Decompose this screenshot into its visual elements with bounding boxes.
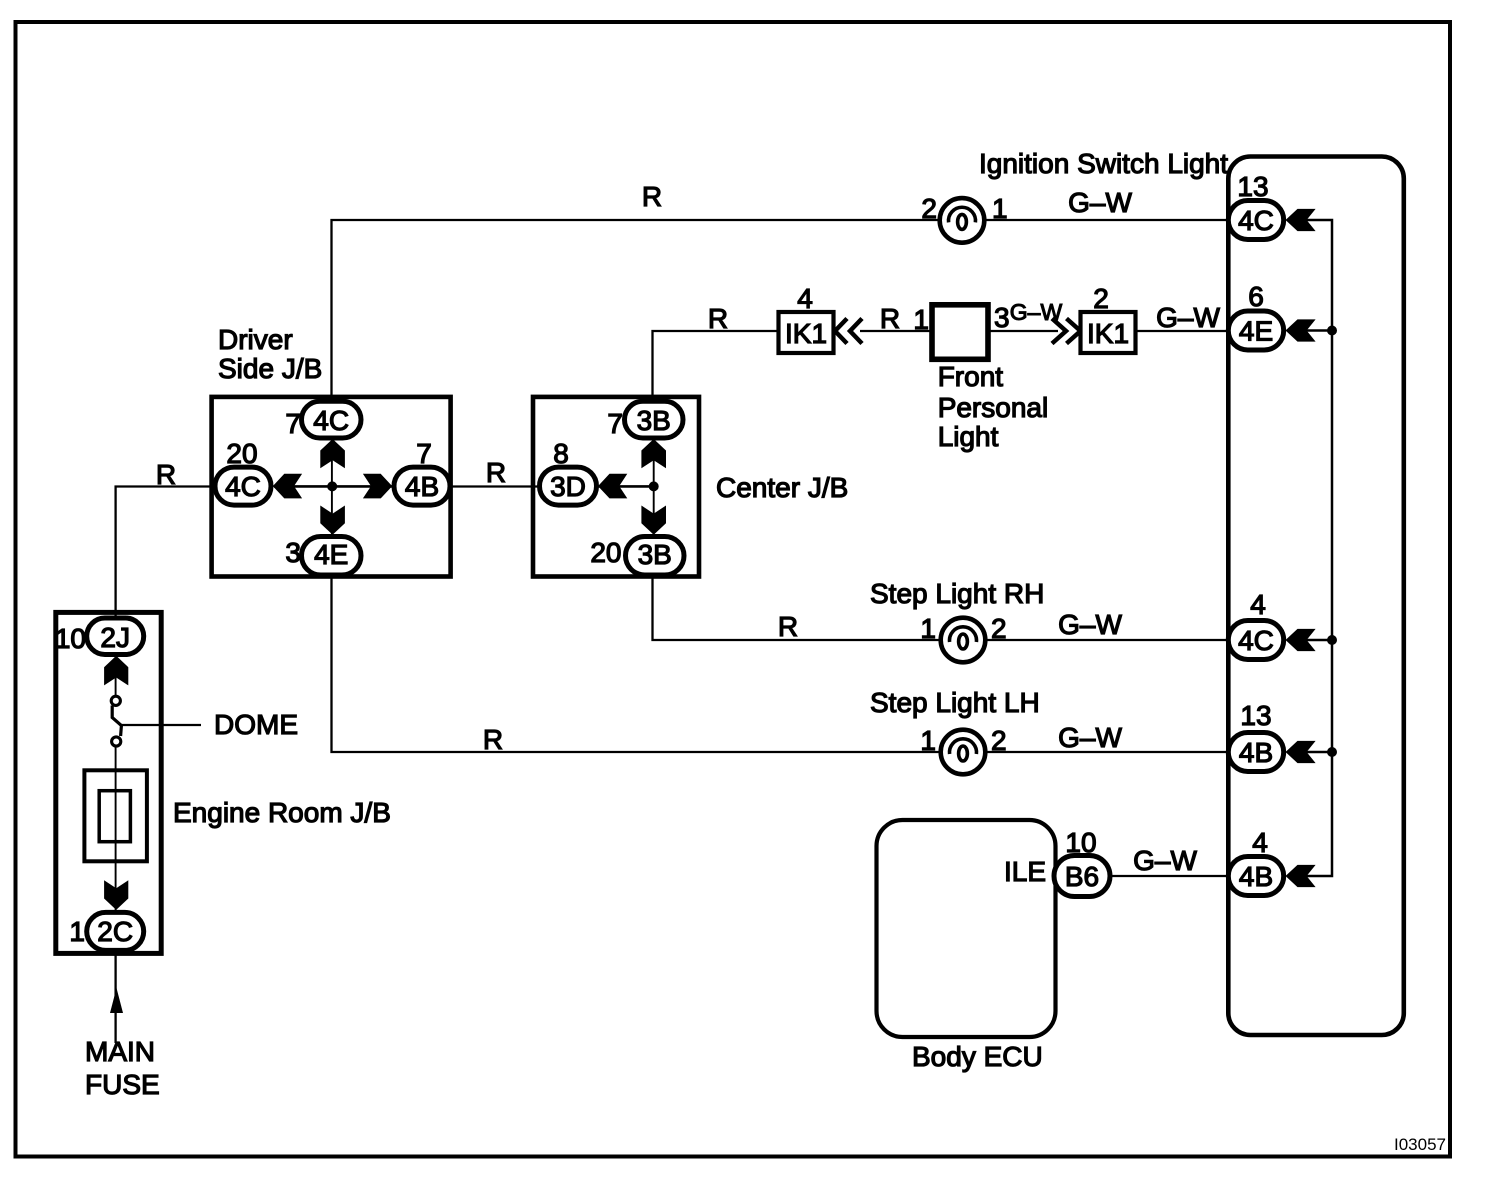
svg-text:6: 6 — [1248, 281, 1264, 312]
svg-text:13: 13 — [1240, 700, 1271, 731]
wire R: Driver Side J/B 4C(7) to Ignition Switch Light to connector 4C(13) — [332, 181, 1230, 402]
svg-text:G–W: G–W — [1058, 722, 1122, 753]
arrow into 4E(6) — [1286, 319, 1316, 341]
arrow into 4C(13) — [1286, 209, 1316, 231]
svg-text:1: 1 — [920, 725, 936, 756]
svg-text:FUSE: FUSE — [85, 1069, 160, 1100]
wire R: Center J/B 3B(7) to connector IK1(4) — [653, 303, 779, 404]
connector 2J pin 10 — [55, 618, 144, 655]
junction block: Driver Side J/B — [212, 324, 451, 577]
svg-text:Step Light LH: Step Light LH — [870, 687, 1040, 718]
svg-text:Front: Front — [938, 361, 1004, 392]
svg-text:3B: 3B — [638, 539, 672, 570]
wire: internal cross in Center J/B — [598, 440, 654, 534]
svg-text:R: R — [778, 611, 798, 642]
svg-text:7: 7 — [416, 438, 432, 469]
svg-text:3D: 3D — [550, 471, 586, 502]
svg-text:4E: 4E — [1239, 316, 1273, 347]
arrow down to 3B(20) — [641, 506, 666, 535]
svg-text:ILE: ILE — [1004, 856, 1046, 887]
arrow into 4C(4) — [1286, 629, 1316, 651]
svg-text:10: 10 — [55, 623, 86, 654]
chevrons into IK1(2) — [1052, 319, 1081, 344]
svg-text:IK1: IK1 — [1087, 318, 1129, 349]
svg-text:13: 13 — [1237, 171, 1268, 202]
junction node: Center J/B center — [649, 481, 659, 491]
svg-text:10: 10 — [1065, 827, 1096, 858]
svg-text:20: 20 — [226, 438, 257, 469]
chevrons into IK1(4) — [835, 319, 862, 344]
junction block: Engine Room J/B — [56, 612, 391, 953]
connector 4E pin 3 (Driver Side J/B bottom) — [285, 537, 361, 576]
svg-text:Engine Room J/B: Engine Room J/B — [173, 797, 391, 828]
wire R: Driver Side J/B 4B to Center J/B 3D — [450, 457, 540, 488]
svg-text:Side J/B: Side J/B — [218, 353, 322, 384]
svg-text:2: 2 — [991, 725, 1007, 756]
connector B6 pin 10 (ILE) — [1004, 827, 1110, 897]
arrow up to 3B(7) — [641, 439, 666, 468]
junction node at 4C(4) bus — [1327, 635, 1337, 645]
in-line connector IK1 pin 2 — [1081, 283, 1136, 353]
connector 4C pin 13 — [1228, 171, 1283, 240]
wire G-W: IK1(2) to connector 4E(6) — [1136, 302, 1230, 333]
wire G-W: Body ECU B6 to connector 4B(4) — [1110, 845, 1229, 876]
connector 4C pin 20 (Driver Side J/B left) — [215, 438, 271, 505]
connector 4B pin 4 — [1228, 827, 1283, 896]
svg-text:R: R — [486, 457, 506, 488]
svg-text:Personal: Personal — [938, 392, 1049, 423]
arrow right to 4B(7) — [363, 474, 392, 499]
svg-text:G–W: G–W — [1133, 845, 1197, 876]
svg-text:Body ECU: Body ECU — [912, 1041, 1043, 1072]
svg-text:Ignition Switch Light: Ignition Switch Light — [979, 148, 1228, 179]
wire G-W: Front Personal Light pin3 to IK1(2) — [988, 299, 1062, 331]
svg-text:R: R — [483, 724, 503, 755]
svg-text:Center J/B: Center J/B — [716, 472, 848, 503]
connector 3D pin 8 (Center J/B left) — [540, 438, 597, 505]
svg-text:R: R — [880, 303, 900, 334]
svg-text:1: 1 — [913, 304, 929, 335]
svg-text:1: 1 — [992, 193, 1008, 224]
wire R: Center J/B 3B(20) to Step Light RH to connector 4C(4) — [653, 576, 1230, 642]
svg-text:R: R — [642, 181, 662, 212]
wire: internal cross in Driver Side J/B — [274, 440, 392, 534]
svg-text:4: 4 — [797, 283, 813, 314]
svg-text:Step Light RH: Step Light RH — [870, 578, 1044, 609]
arrow up to 2J — [104, 656, 128, 686]
svg-text:MAIN: MAIN — [85, 1036, 155, 1067]
svg-text:3B: 3B — [637, 405, 671, 436]
wire R: Front Personal Light pin1 to IK1 chevrons — [860, 303, 932, 334]
svg-text:1: 1 — [69, 916, 85, 947]
arrow left to 3D(8) — [598, 474, 627, 499]
svg-text:Driver: Driver — [218, 324, 293, 355]
connector: instrument panel harness — [1228, 157, 1404, 1036]
svg-text:R: R — [708, 303, 728, 334]
wire R: Engine Room J/B 2J to Driver Side J/B 4C(20) — [116, 459, 215, 618]
lamp: Step Light LH — [870, 687, 1040, 774]
connector 4C pin 7 (Driver Side J/B top) — [285, 401, 361, 439]
lamp: Ignition Switch Light — [921, 148, 1228, 243]
svg-text:4: 4 — [1252, 827, 1268, 858]
junction node: Driver Side J/B center — [327, 481, 337, 491]
wire: feed through Engine Room J/B — [115, 654, 117, 912]
svg-text:2J: 2J — [100, 622, 130, 653]
svg-text:4B: 4B — [405, 471, 439, 502]
wire: internal bus in instrument panel connector — [1303, 220, 1332, 876]
lamp: Front Personal Light — [913, 302, 1048, 452]
svg-text:2: 2 — [1093, 283, 1109, 314]
svg-text:20: 20 — [590, 537, 621, 568]
figure ID I03057 — [1394, 1135, 1446, 1154]
arrow into 4B(13) — [1286, 741, 1316, 763]
svg-text:3: 3 — [285, 537, 301, 568]
svg-text:3: 3 — [994, 302, 1010, 333]
svg-text:G–W: G–W — [1058, 609, 1122, 640]
connector 4E pin 6 — [1228, 281, 1283, 350]
fuse DOME — [111, 696, 298, 746]
in-line connector IK1 pin 4 — [779, 283, 834, 353]
connector 4B pin 7 (Driver Side J/B right) — [394, 438, 450, 505]
svg-text:8: 8 — [553, 438, 569, 469]
junction node at 4B(13) bus — [1327, 747, 1337, 757]
arrow down to 4E(3) — [320, 506, 345, 535]
wire from MAIN FUSE — [85, 950, 160, 1100]
wire R: Driver Side J/B 4E(3) to Step Light LH to connector 4B(13) — [332, 576, 1230, 755]
svg-text:G–W: G–W — [1068, 187, 1132, 218]
arrow up to 4C(7) — [320, 439, 345, 468]
svg-text:2C: 2C — [97, 916, 133, 947]
svg-text:R: R — [156, 459, 176, 490]
svg-text:4E: 4E — [314, 539, 348, 570]
lamp: Step Light RH — [870, 578, 1044, 662]
ECU: Body ECU — [877, 820, 1056, 1072]
svg-text:7: 7 — [607, 408, 623, 439]
fusible link (MAIN) in Engine Room J/B — [84, 770, 146, 861]
svg-text:4: 4 — [1250, 589, 1266, 620]
svg-text:2: 2 — [991, 613, 1007, 644]
svg-text:4B: 4B — [1239, 861, 1273, 892]
svg-text:IK1: IK1 — [785, 318, 827, 349]
svg-text:G–W: G–W — [1156, 302, 1220, 333]
svg-text:B6: B6 — [1065, 861, 1099, 892]
connector 4B pin 13 — [1228, 700, 1283, 772]
svg-text:DOME: DOME — [214, 709, 298, 740]
svg-text:I03057: I03057 — [1394, 1135, 1446, 1154]
svg-text:4C: 4C — [1238, 625, 1274, 656]
connector 3B pin 20 (Center J/B bottom) — [590, 537, 684, 576]
junction node at 4E(6) bus — [1327, 326, 1337, 336]
junction block: Center J/B — [533, 397, 848, 577]
svg-text:4C: 4C — [313, 405, 349, 436]
connector 2C pin 1 — [69, 912, 143, 950]
svg-text:1: 1 — [920, 613, 936, 644]
svg-text:4B: 4B — [1239, 737, 1273, 768]
svg-text:4C: 4C — [1238, 205, 1274, 236]
arrow left to 4C(20) — [273, 474, 302, 499]
svg-text:4C: 4C — [225, 471, 261, 502]
arrow into 4B(4) — [1286, 865, 1316, 887]
connector 4C pin 4 — [1228, 589, 1283, 660]
svg-text:Light: Light — [938, 421, 999, 452]
svg-text:7: 7 — [285, 408, 301, 439]
connector 3B pin 7 (Center J/B top) — [607, 401, 683, 439]
arrow down to 2C — [104, 880, 128, 910]
svg-text:2: 2 — [921, 193, 937, 224]
